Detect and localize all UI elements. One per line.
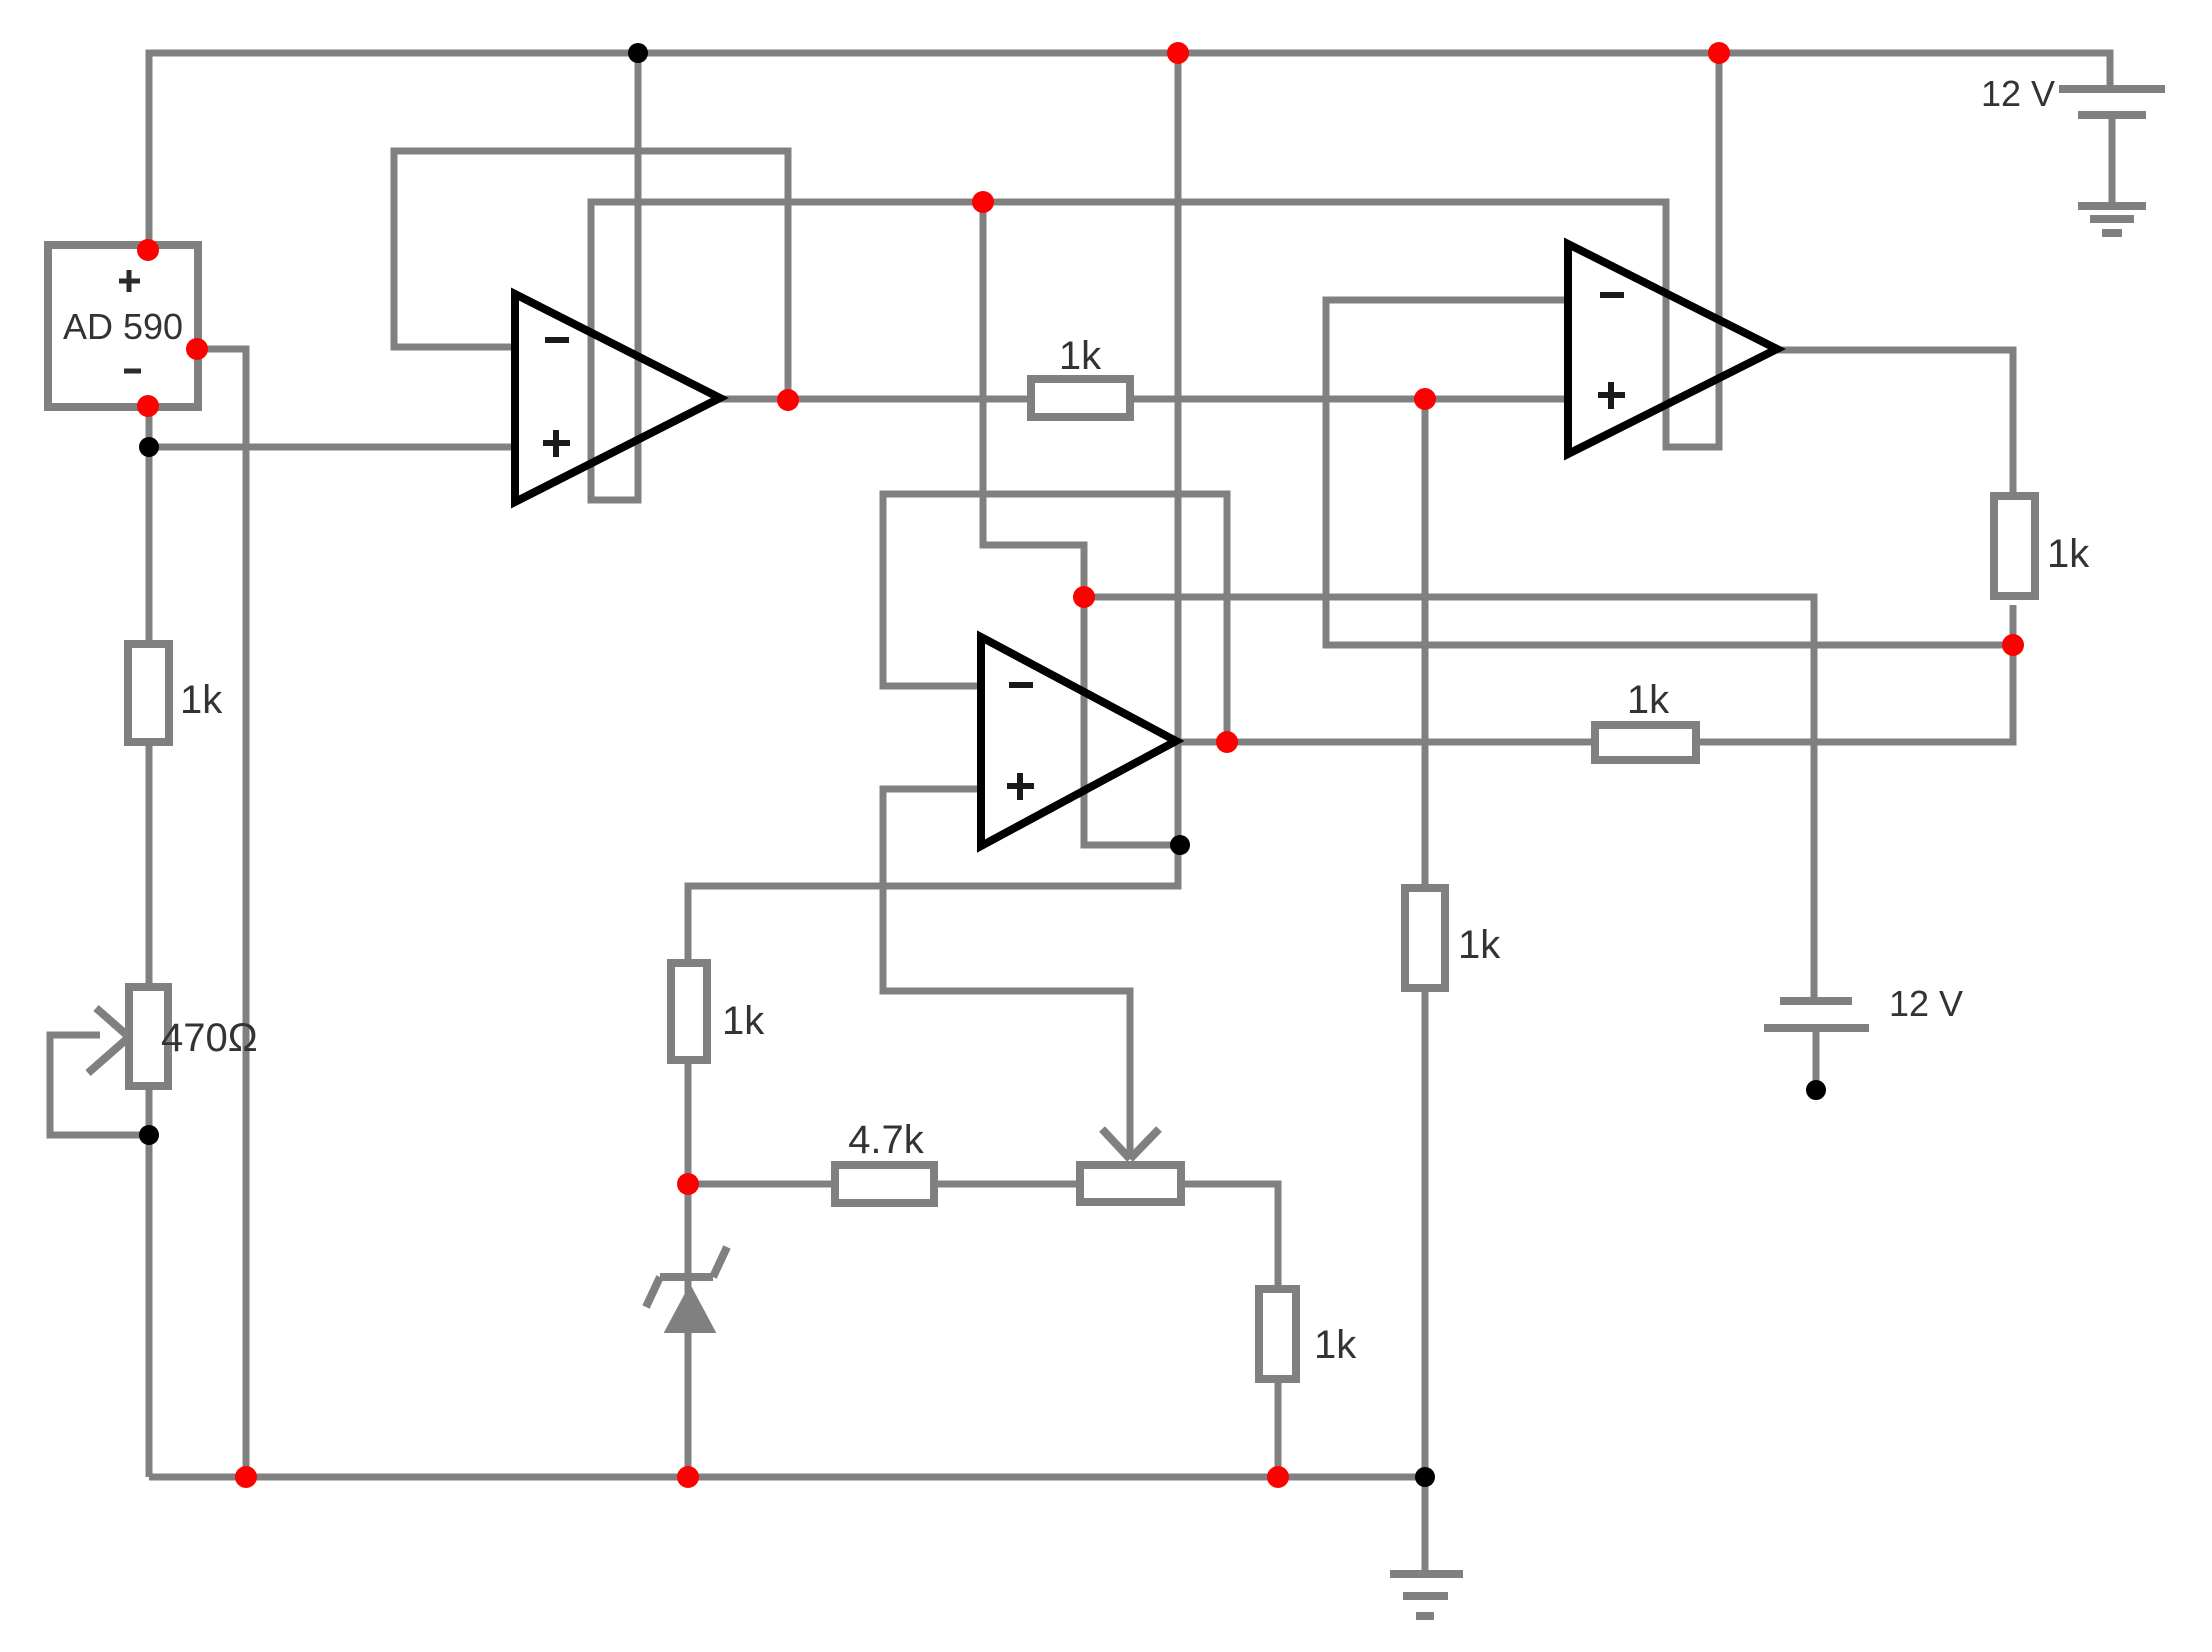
wire AD590 right pin to long vertical down to bottom bus <box>198 349 246 1477</box>
wire battery V2 bottom stub <box>1813 1028 1820 1085</box>
wire from R8 right side to corner up to R9 bottom <box>1700 605 2013 742</box>
op-amp U1 <box>515 294 720 502</box>
wire vertical from top bus red node down past U3 apex to black junction, then left and down to R4 <box>688 53 1178 1184</box>
node red dot AD590 plus pin <box>137 239 159 261</box>
svg-text:1k: 1k <box>1059 334 1102 378</box>
node red dot U3 output <box>1216 731 1238 753</box>
battery V2 12V middle right <box>1764 983 1963 1028</box>
svg-text:470Ω: 470Ω <box>161 1016 258 1060</box>
resistor R10 1k vertical bottom <box>1259 1289 1357 1379</box>
wire RV1 wiper loop to lower terminal node <box>50 1035 149 1135</box>
AD590 temperature sensor box <box>48 245 198 407</box>
potentiometer RV1 470 ohm <box>88 987 258 1086</box>
wire U2 inverting loop from input left, down, right to node under R9 <box>1326 300 2013 645</box>
wire R10 bottom to bottom bus <box>1275 1383 1282 1477</box>
wire left rail from AD590 minus pin down through R1 and RV1 to bottom bus <box>146 407 153 1477</box>
wire zener branch from red node down through D1 to bottom bus <box>685 1184 692 1477</box>
wire U3 non-inverting input loop left, down, right to RV2 wiper arrow <box>883 789 1130 1157</box>
node red dot bottom bus zener <box>677 1466 699 1488</box>
resistor R1 1k vertical left <box>128 644 223 742</box>
node black dot bottom bus ground junction <box>1415 1467 1435 1487</box>
battery V1 12V top right <box>1981 73 2165 115</box>
node black dot top bus left junction <box>628 43 648 63</box>
node red dot under R9 <box>2002 634 2024 656</box>
op-amp U2 <box>1568 244 1777 454</box>
node red dot AD590 minus pin <box>137 395 159 417</box>
svg-text:4.7k: 4.7k <box>848 1118 925 1162</box>
wire bottom ground bus <box>149 1474 1426 1481</box>
svg-text:AD 590: AD 590 <box>63 306 183 347</box>
wire U2 output right and down to R9 top <box>1777 350 2013 493</box>
node red dot bottom bus R10 <box>1267 1466 1289 1488</box>
resistor R9 1k vertical far right <box>1994 496 2090 596</box>
node red dot U2 non-inverting input junction <box>1414 388 1436 410</box>
wire U1 non-inverting input from left rail node <box>149 444 515 451</box>
node black dot RV1 lower terminal <box>139 1125 159 1145</box>
wire branch from node on mid rail down, jog right, to U3 minus-net junction <box>983 202 1180 845</box>
svg-text:1k: 1k <box>722 999 765 1043</box>
svg-text:1k: 1k <box>180 678 223 722</box>
wire top supply bus from AD590 plus up and across to battery <box>149 53 2110 245</box>
node red dot top bus middle junction <box>1167 42 1189 64</box>
resistor R4 1k vertical center left <box>671 963 765 1060</box>
wire battery V1 stem to ground <box>2109 115 2116 206</box>
node red dot mid rail junction <box>972 191 994 213</box>
wire main middle row from U1 apex through R3 to U2 non-inverting input <box>720 396 1568 403</box>
node red dot top bus right junction <box>1708 42 1730 64</box>
wire U1 feedback loop from output up, left, down to inverting input <box>394 151 788 400</box>
node red dot AD590 right pin <box>186 338 208 360</box>
resistor R7 1k vertical center right <box>1405 888 1501 988</box>
svg-text:12 V: 12 V <box>1981 73 2055 114</box>
wire from red node on middle row down through R7 to bottom bus black node <box>1422 399 1429 1477</box>
node red dot bottom bus left <box>235 1466 257 1488</box>
node black dot below U3 <box>1170 835 1190 855</box>
wire U3 output line to R8 <box>1176 739 1591 746</box>
wire net from top bus through U1 body down, under U1, up and across to U2 feedback loop <box>591 53 1719 500</box>
resistor R8 1k horizontal right middle <box>1595 678 1696 760</box>
op-amp U3 <box>981 637 1176 846</box>
svg-text:1k: 1k <box>1627 678 1670 722</box>
node red dot R4 zener junction <box>677 1173 699 1195</box>
zener diode D1 <box>646 1247 727 1331</box>
ground below battery V1 <box>2078 206 2146 233</box>
svg-text:12 V: 12 V <box>1889 983 1963 1024</box>
svg-text:1k: 1k <box>1458 923 1501 967</box>
node black dot U1 plus input rail junction <box>139 437 159 457</box>
node red dot U1 output <box>777 389 799 411</box>
potentiometer RV2 horizontal with down arrow <box>1080 1129 1181 1202</box>
resistor R3 1k horizontal top center <box>1031 334 1130 417</box>
wire ground stem below bottom bus right end <box>1422 1477 1429 1574</box>
wire from U3 minus-net junction right and down to battery V2 <box>1084 597 1814 1001</box>
svg-text:1k: 1k <box>1314 1323 1357 1367</box>
ground bottom right <box>1390 1574 1463 1616</box>
node black dot battery V2 negative end <box>1806 1080 1826 1100</box>
wire row through R5 and RV2 body, then down to R10 <box>688 1184 1278 1289</box>
resistor R5 4.7k horizontal <box>835 1118 934 1203</box>
node red dot U3 minus net junction <box>1073 586 1095 608</box>
svg-text:1k: 1k <box>2047 532 2090 576</box>
wire U3 feedback loop from output node up, left, down to inverting input <box>883 494 1227 742</box>
